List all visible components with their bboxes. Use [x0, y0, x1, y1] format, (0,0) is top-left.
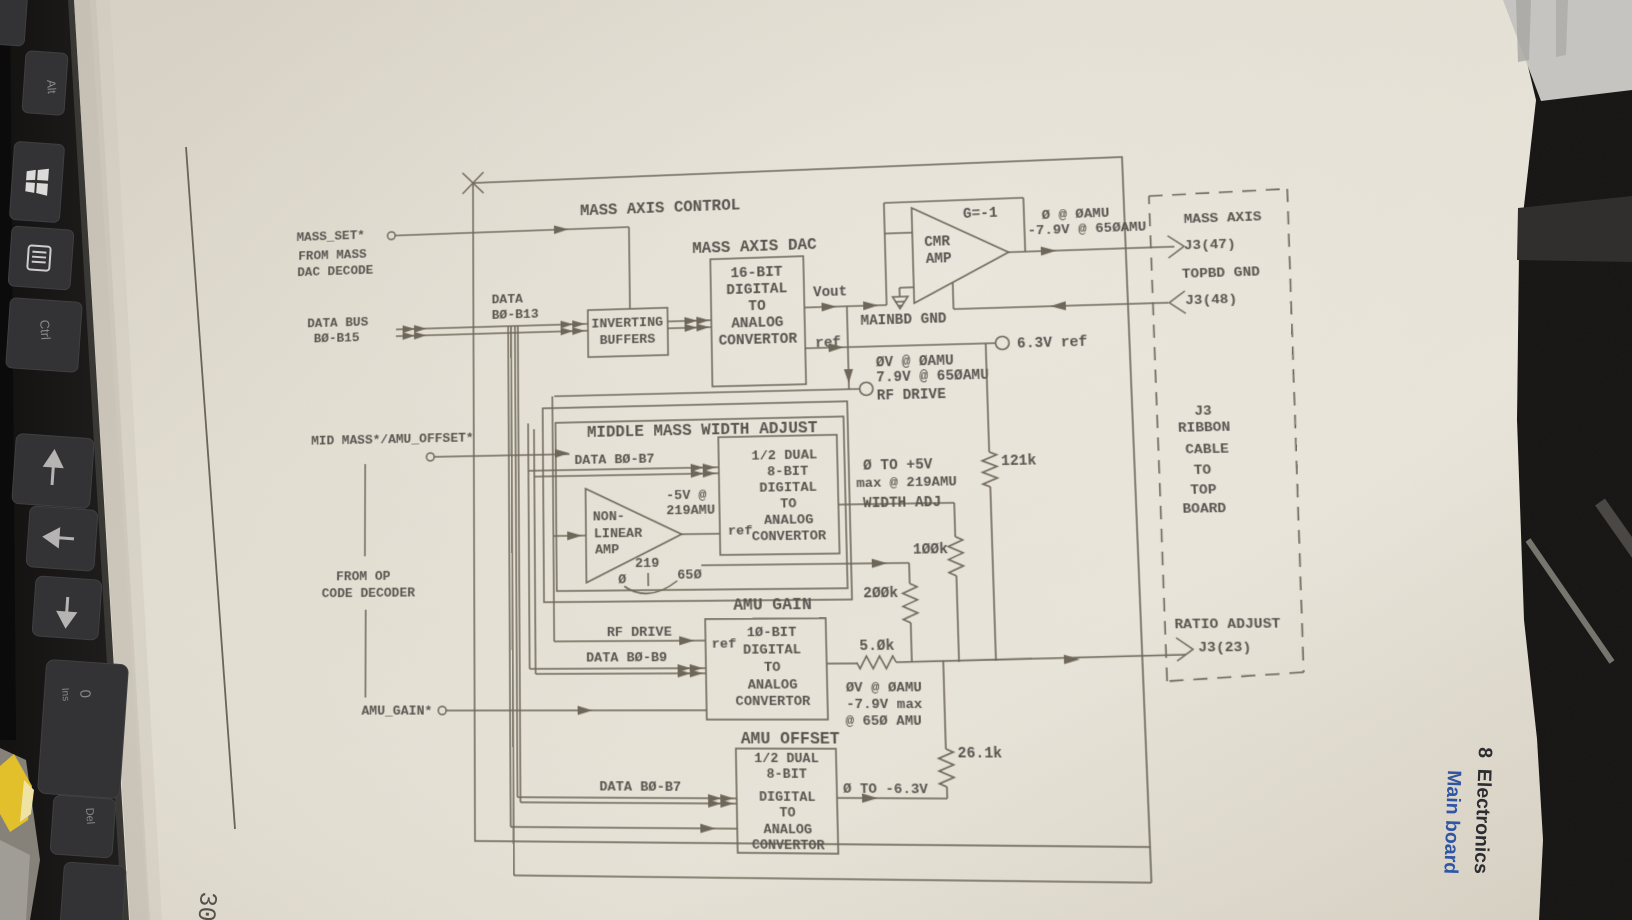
wire RF drive tap — [847, 306, 849, 389]
wire RF drive horizontal — [554, 389, 859, 396]
svg-text:7.9V @ 65ØAMU: 7.9V @ 65ØAMU — [876, 367, 989, 386]
svg-text:ANALOG: ANALOG — [731, 314, 784, 332]
svg-text:6.3V ref: 6.3V ref — [1017, 334, 1088, 352]
svg-text:CONVERTOR: CONVERTOR — [752, 528, 827, 545]
bus entry chevrons — [403, 325, 415, 333]
outer box MASS AXIS CONTROL boundary — [473, 157, 1150, 847]
svg-text:BUFFERS: BUFFERS — [599, 331, 655, 348]
wire offset strobe — [511, 827, 738, 829]
resistor 100k — [954, 503, 955, 537]
svg-text:219AMU: 219AMU — [666, 502, 715, 519]
block inverting buffers — [588, 308, 668, 357]
svg-text:ANALOG: ANALOG — [764, 512, 814, 529]
wire data bus pair — [396, 324, 588, 330]
wire Vout — [804, 305, 886, 307]
chevron J3(48) — [1169, 291, 1186, 314]
svg-text:AMP: AMP — [595, 542, 619, 558]
dashed connector box J3 ribbon — [1149, 189, 1288, 196]
svg-text:1ØØk: 1ØØk — [913, 542, 949, 559]
svg-text:TO: TO — [748, 298, 766, 315]
svg-text:J3(47): J3(47) — [1184, 236, 1237, 254]
svg-text:-5V @: -5V @ — [666, 487, 707, 503]
svg-text:J3: J3 — [1194, 403, 1212, 420]
svg-text:BOARD: BOARD — [1182, 500, 1226, 517]
svg-text:AMU GAIN: AMU GAIN — [733, 596, 812, 615]
wire TOPBD GND return — [954, 303, 1169, 309]
svg-text:DIGITAL: DIGITAL — [743, 642, 801, 658]
resistor 121k column — [986, 343, 990, 452]
svg-text:TO: TO — [764, 659, 781, 675]
wire NLA input — [553, 535, 586, 537]
svg-text:TO: TO — [780, 496, 797, 512]
block offset 8-bit DAC U6 — [736, 749, 838, 854]
menu key icon — [27, 245, 51, 270]
wire MID MASS to width adjust box — [434, 454, 569, 457]
svg-text:CONVERTOR: CONVERTOR — [718, 330, 797, 349]
node MID MASS terminal — [427, 453, 435, 461]
desk bottom-left — [0, 748, 40, 920]
svg-text:DATA BØ-B7: DATA BØ-B7 — [574, 451, 654, 468]
svg-text:2ØØk: 2ØØk — [863, 585, 899, 601]
svg-text:26.1k: 26.1k — [957, 746, 1003, 763]
box middle mass width adjust — [555, 416, 847, 591]
wire MASS_SET* to inverting buffers — [395, 227, 629, 236]
arrow J3(23) — [1176, 638, 1193, 661]
resistor 26.1k — [943, 661, 946, 749]
svg-text:MASS AXIS: MASS AXIS — [1183, 209, 1261, 228]
wire feedback loop around CMR amp — [884, 203, 887, 305]
bus verticals B0-B13 drop — [508, 326, 511, 827]
svg-text:RF DRIVE: RF DRIVE — [877, 387, 947, 404]
svg-text:1Ø-BIT: 1Ø-BIT — [747, 624, 797, 640]
corner X mark — [462, 172, 483, 194]
svg-text:RATIO ADJUST: RATIO ADJUST — [1174, 616, 1281, 633]
svg-text:CODE DECODER: CODE DECODER — [322, 585, 416, 601]
margin line — [186, 147, 235, 829]
svg-text:ØV @ ØAMU: ØV @ ØAMU — [846, 680, 922, 696]
block 10-bit DAC U5 — [705, 618, 828, 719]
svg-text:RF DRIVE: RF DRIVE — [607, 624, 672, 640]
svg-text:DATA: DATA — [492, 292, 524, 308]
node MASS_SET* terminal — [388, 232, 396, 240]
svg-text:DATA BØ-B7: DATA BØ-B7 — [599, 779, 681, 796]
svg-text:Vout: Vout — [813, 284, 847, 301]
svg-text:CMR: CMR — [924, 234, 951, 250]
svg-text:CONVERTOR: CONVERTOR — [752, 838, 825, 854]
svg-text:DIGITAL: DIGITAL — [759, 790, 816, 806]
svg-text:219: 219 — [635, 556, 660, 572]
svg-text:NON-: NON- — [593, 509, 625, 525]
svg-text:MASS AXIS DAC: MASS AXIS DAC — [692, 237, 817, 259]
svg-text:65Ø: 65Ø — [677, 567, 702, 583]
bus arrows into inverting buffers — [561, 320, 574, 328]
wire NLA ref out — [682, 533, 720, 536]
wire 0 TO -6.3V — [837, 797, 947, 800]
svg-text:CONVERTOR: CONVERTOR — [735, 693, 811, 709]
svg-text:8-BIT: 8-BIT — [766, 767, 807, 782]
svg-text:J3(48): J3(48) — [1185, 291, 1238, 309]
wire upper amp input — [885, 232, 913, 235]
svg-text:Ø TO -6.3V: Ø TO -6.3V — [843, 781, 929, 798]
svg-text:AMU_GAIN*: AMU_GAIN* — [361, 703, 432, 719]
svg-text:max @ 219AMU: max @ 219AMU — [856, 474, 957, 492]
svg-text:MIDDLE MASS WIDTH ADJUST: MIDDLE MASS WIDTH ADJUST — [587, 420, 818, 443]
arrow key glyphs — [44, 451, 74, 626]
svg-text:TO: TO — [1193, 462, 1211, 479]
svg-text:121k: 121k — [1001, 453, 1037, 470]
svg-text:-7.9V max: -7.9V max — [846, 696, 922, 712]
resistor 200k — [908, 563, 911, 584]
svg-text:@ 65Ø AMU: @ 65Ø AMU — [845, 713, 922, 729]
svg-text:1/2 DUAL: 1/2 DUAL — [751, 447, 817, 464]
wire mid bus pair — [528, 467, 718, 471]
svg-text:8-BIT: 8-BIT — [767, 463, 808, 480]
svg-text:5.Øk: 5.Øk — [859, 638, 895, 654]
ground MAINBD GND — [898, 288, 900, 297]
block 16-bit DAC U1 — [710, 256, 806, 386]
svg-text:TO: TO — [779, 806, 795, 821]
svg-text:MID MASS*/AMU_OFFSET*: MID MASS*/AMU_OFFSET* — [311, 430, 474, 449]
wire NLA output to 200k — [701, 563, 909, 565]
svg-text:Ø: Ø — [618, 572, 626, 588]
svg-text:-7.9V @ 65ØAMU: -7.9V @ 65ØAMU — [1027, 219, 1146, 239]
wire offset bus pair — [517, 797, 736, 798]
svg-text:DIGITAL: DIGITAL — [759, 479, 817, 496]
node RF DRIVE terminal — [860, 382, 874, 395]
svg-text:BØ-B13: BØ-B13 — [492, 307, 539, 324]
svg-text:AMP: AMP — [925, 251, 951, 267]
op-amp CMR AMP U2 — [912, 204, 1011, 303]
box middle mass section outer — [543, 401, 852, 602]
svg-text:DATA BUS: DATA BUS — [307, 315, 368, 332]
monitor seam band — [1517, 196, 1632, 262]
svg-text:CABLE: CABLE — [1185, 441, 1229, 458]
cable streaks bottom right — [1528, 540, 1612, 662]
svg-text:FROM MASS: FROM MASS — [298, 247, 366, 264]
svg-text:MASS_SET*: MASS_SET* — [297, 228, 365, 245]
svg-text:LINEAR: LINEAR — [594, 526, 643, 542]
wire gain bus pair — [530, 667, 706, 670]
arrow J3(47) — [1168, 235, 1185, 258]
svg-text:ANALOG: ANALOG — [764, 823, 813, 839]
svg-text:ref: ref — [728, 523, 753, 539]
svg-text:RIBBON: RIBBON — [1178, 419, 1231, 436]
svg-text:Ø TO +5V: Ø TO +5V — [863, 457, 933, 474]
gray background block top right — [1503, 0, 1632, 101]
wire width adj output — [838, 503, 954, 505]
wire amp output to J3(47) — [1009, 247, 1175, 253]
svg-text:ref: ref — [712, 636, 737, 652]
svg-text:TOPBD GND: TOPBD GND — [1182, 264, 1261, 282]
svg-text:DAC DECODE: DAC DECODE — [297, 263, 373, 281]
svg-text:BØ-B15: BØ-B15 — [314, 330, 360, 346]
svg-text:DIGITAL: DIGITAL — [726, 280, 787, 298]
windows logo — [25, 167, 49, 195]
svg-text:WIDTH ADJ: WIDTH ADJ — [863, 495, 942, 512]
wire FROM OP CODE DECODER bracket — [364, 464, 366, 556]
paper subtle shading — [0, 0, 1, 1]
svg-text:ANALOG: ANALOG — [748, 677, 798, 693]
svg-text:8 Electronics: 8 Electronics — [1470, 747, 1496, 875]
svg-text:16-BIT: 16-BIT — [730, 263, 783, 281]
op-amp NON-LINEAR AMP U4 — [586, 487, 683, 583]
svg-text:1/2 DUAL: 1/2 DUAL — [754, 752, 819, 767]
svg-text:DATA BØ-B9: DATA BØ-B9 — [586, 650, 667, 666]
block 1/2 dual 8-bit DAC U3 — [718, 435, 839, 555]
node 6.3V ref terminal — [995, 336, 1009, 349]
wire bottom bus return — [514, 875, 1152, 882]
svg-text:INVERTING: INVERTING — [591, 315, 663, 332]
svg-text:G=-1: G=-1 — [963, 205, 998, 222]
svg-text:TOP: TOP — [1190, 482, 1217, 499]
wire buffers to DAC pair — [668, 320, 712, 321]
svg-text:MASS AXIS CONTROL: MASS AXIS CONTROL — [580, 197, 740, 220]
svg-text:J3(23): J3(23) — [1198, 639, 1252, 656]
wire AMU_GAIN* — [446, 709, 706, 711]
keyboard band — [0, 0, 128, 920]
svg-text:FROM OP: FROM OP — [336, 569, 390, 585]
yellow highlighter — [0, 754, 32, 832]
svg-text:MAINBD GND: MAINBD GND — [860, 311, 947, 329]
paper soft shadow along keyboard — [74, 0, 150, 920]
svg-text:AMU OFFSET: AMU OFFSET — [741, 731, 841, 750]
